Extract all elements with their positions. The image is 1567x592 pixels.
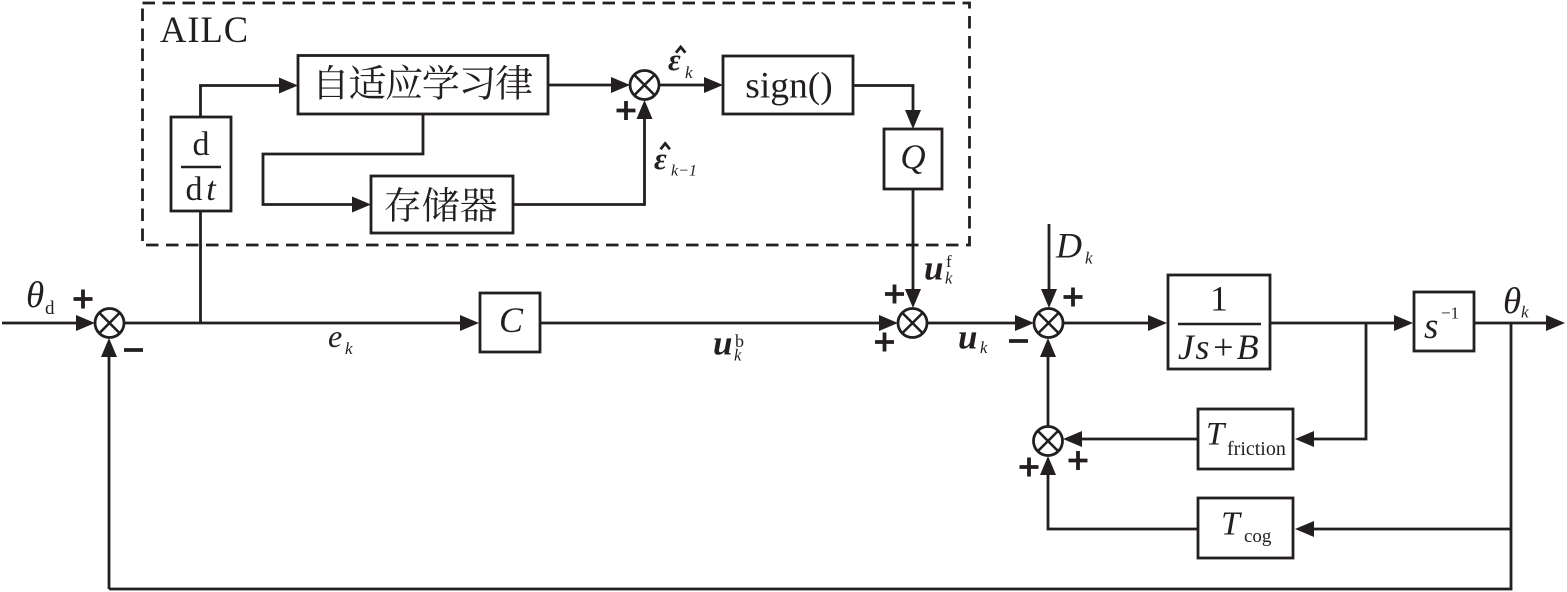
svg-text:e: e [328,318,342,354]
svg-text:u: u [924,249,943,288]
svg-text:b: b [735,331,744,351]
svg-text:t: t [206,171,217,208]
svg-text:d: d [193,126,210,163]
svg-text:C: C [499,300,524,340]
svg-text:ε: ε [654,141,667,176]
svg-text:T: T [1206,417,1227,453]
svg-text:Q: Q [900,138,925,177]
svg-text:D: D [1055,226,1082,266]
svg-text:k: k [685,63,693,82]
svg-text:friction: friction [1227,438,1286,460]
svg-text:Js+B: Js+B [1178,327,1260,367]
svg-text:θ: θ [26,275,44,316]
svg-text:k: k [1521,303,1529,322]
svg-text:f: f [946,252,952,271]
svg-text:s: s [1424,306,1438,347]
svg-text:−1: −1 [1441,304,1459,323]
svg-text:sign(): sign() [745,66,833,107]
svg-text:θ: θ [1503,281,1521,322]
svg-text:u: u [713,324,732,363]
svg-text:1: 1 [1210,279,1228,319]
svg-text:d: d [186,171,203,208]
svg-text:k: k [945,269,953,288]
svg-text:T: T [1221,506,1242,543]
svg-text:k: k [1085,249,1093,268]
svg-text:d: d [45,298,55,319]
svg-text:cog: cog [1244,526,1272,547]
svg-text:AILC: AILC [160,9,249,50]
svg-text:k−1: k−1 [671,163,697,180]
svg-text:k: k [345,339,353,358]
svg-text:u: u [958,318,977,357]
svg-text:k: k [980,338,988,357]
